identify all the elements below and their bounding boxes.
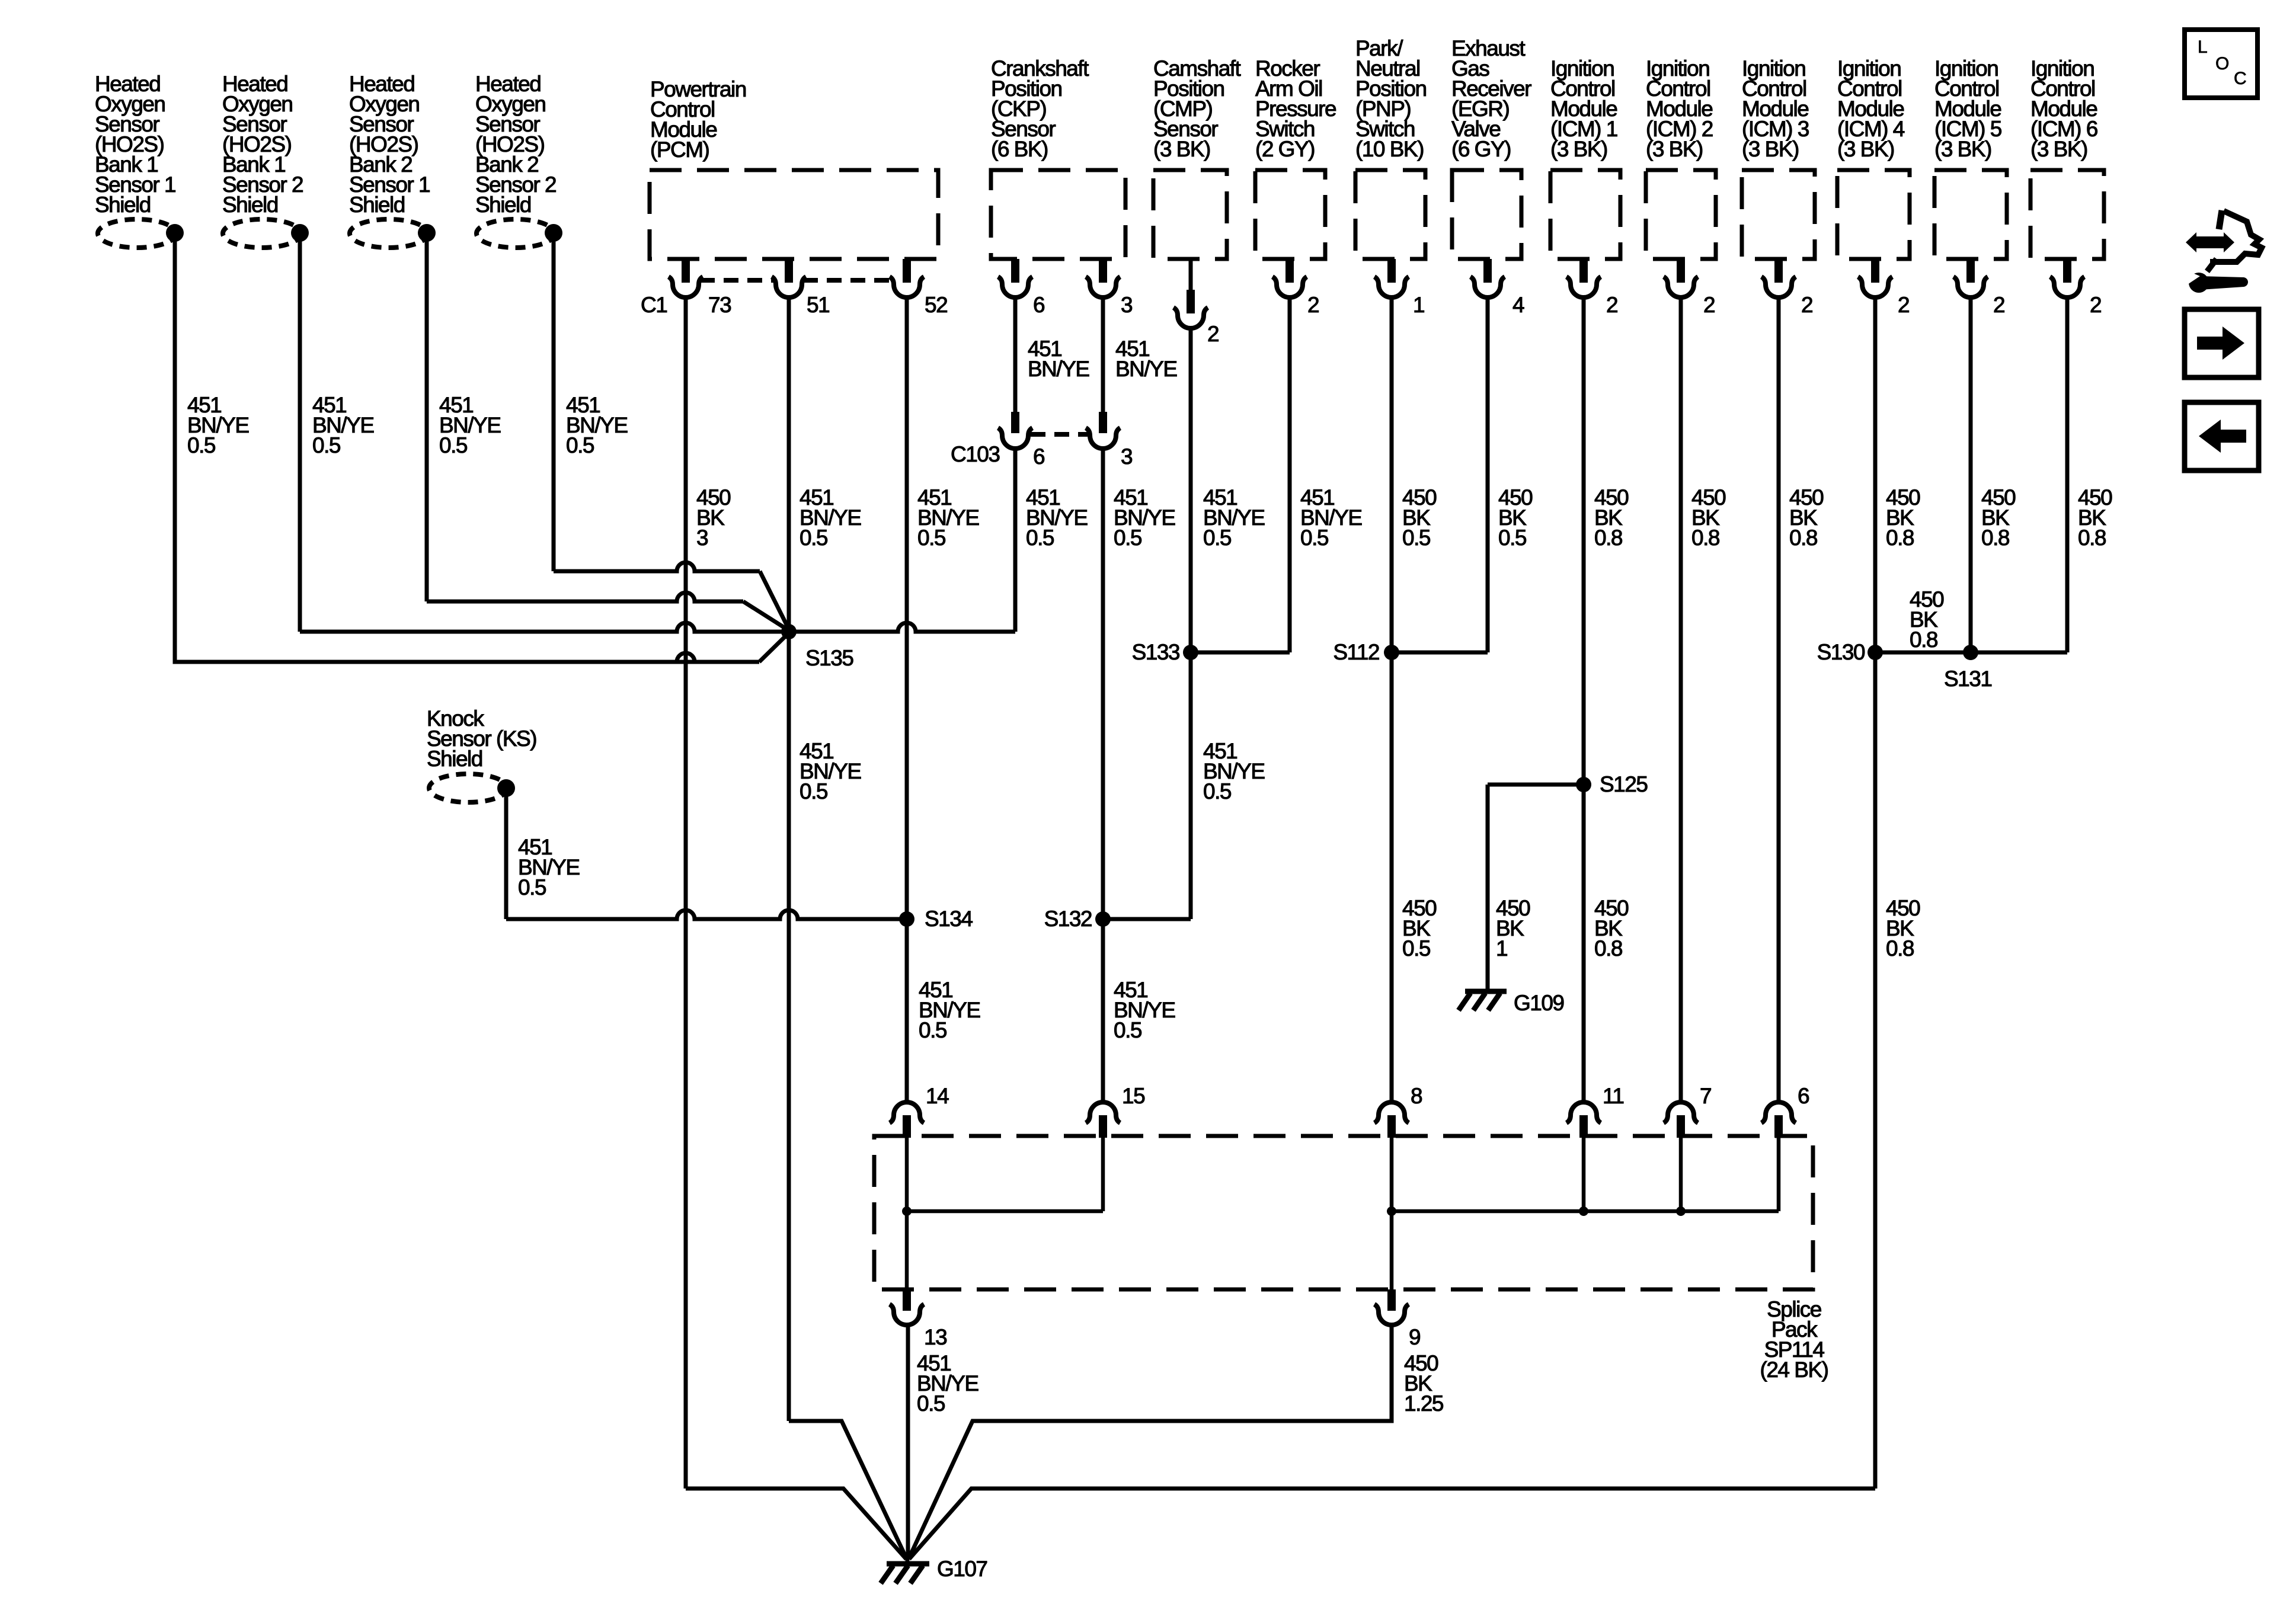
HO2S bank2 sensor2 shield symbol [477,219,555,248]
knock shield wire [504,792,509,919]
svg-text:S132: S132 [1044,907,1092,931]
CKP sensor dashed box [991,170,1125,259]
wire: S130 bottom run 450 BK to G107 [909,1489,1875,1559]
svg-text:15: 15 [1122,1084,1145,1108]
svg-text:0.8: 0.8 [1910,628,1937,652]
svg-text:(3 BK): (3 BK) [1550,137,1607,161]
svg-text:Shield: Shield [95,193,151,217]
ICM 1 pin 2 terminal [1579,259,1588,283]
EGR pin 4 terminal [1483,259,1492,283]
SP114 pin 14 terminal [890,1102,924,1123]
SP114 pin 8 terminal [1374,1102,1409,1123]
svg-text:11: 11 [1603,1084,1623,1108]
CKP pin 3 terminal [1099,259,1107,283]
wire: rocker switch pin 2 down, left to S133 [1288,297,1292,652]
PCM connector C1 pin 52 terminal [903,259,911,283]
svg-text:3: 3 [1121,444,1132,469]
svg-text:0.8: 0.8 [1789,526,1817,550]
svg-text:0.5: 0.5 [1203,526,1232,550]
svg-text:0.5: 0.5 [566,433,594,457]
svg-text:0.5: 0.5 [1026,526,1054,550]
svg-text:0.8: 0.8 [1594,526,1622,550]
svg-text:0.8: 0.8 [1981,526,2009,550]
svg-text:1: 1 [1496,936,1507,961]
SP114 bus junction at pin 11 [1579,1206,1588,1216]
svg-text:BN/YE: BN/YE [1028,357,1089,381]
svg-text:(3 BK): (3 BK) [1934,137,1991,161]
ICM 2 pin 2 terminal [1677,259,1685,283]
wire: EGR pin 4 450 BK down, left to S112 [1486,297,1490,652]
wire: SP114 pin 13 451 BN/YE to G107 [906,1325,910,1559]
svg-text:G107: G107 [937,1557,987,1581]
svg-text:2: 2 [2090,293,2101,317]
EGR valve dashed box [1452,170,1521,259]
svg-text:S112: S112 [1333,640,1379,664]
svg-text:(3 BK): (3 BK) [1837,137,1894,161]
wire: HO2S B1S2 shield 451 BN/YE to S135 [300,623,789,632]
svg-text:0.8: 0.8 [1886,526,1914,550]
ICM 1 dashed box [1550,170,1620,259]
wire: ICM1 pin 2 450 BK down through S125 to SP114 pin 11 [1582,297,1586,1102]
svg-text:0.5: 0.5 [917,526,946,550]
HO2S bank2 sensor1 shield symbol [350,219,428,248]
connector C1 dashed link [700,278,775,283]
svg-text:0.8: 0.8 [1886,936,1914,961]
wire: SP114 pin 9 450 BK to G107 [909,1325,1392,1559]
svg-text:BN/YE: BN/YE [1115,357,1177,381]
ground G107 [881,1557,929,1583]
svg-text:2: 2 [1801,293,1812,317]
PNP pin 1 terminal [1387,259,1396,283]
svg-text:1.25: 1.25 [1404,1391,1444,1416]
SP114 bus junction at pin 7 [1676,1206,1686,1216]
splice S133 [1183,645,1198,660]
svg-text:2: 2 [1898,293,1909,317]
wire: PCM pin 51 451 BN/YE through S135 down [787,297,791,1421]
wire: ICM4 pin 2 450 BK through S130 down to G107 [1873,297,1878,1489]
splice S131 [1963,645,1978,660]
hop HO2S1 over pin73 wire [175,653,759,662]
svg-text:S131: S131 [1944,667,1991,691]
wire: PNP pin 1 450 BK down through S112 to SP114 pin 8 [1390,297,1394,1102]
svg-text:S134: S134 [925,907,973,931]
svg-text:4: 4 [1512,293,1524,317]
svg-text:0.5: 0.5 [312,433,341,457]
svg-text:0.5: 0.5 [1402,936,1431,961]
CMP sensor dashed box [1153,170,1227,259]
SP114 pin 15 terminal [1086,1102,1120,1123]
splice S135 [781,624,797,639]
wire: HO2S B2S1 shield 451 BN/YE to S135 [425,237,429,601]
svg-text:0.5: 0.5 [1203,779,1232,804]
svg-text:(24 BK): (24 BK) [1760,1358,1828,1382]
wire: HO2S B1S1 shield 451 BN/YE to S135 [175,237,759,662]
wire: pin 51 bottom run to G107 [789,1421,907,1559]
connector C103 dashed link [1031,432,1088,437]
wire: PCM pin 73 450 BK down to G107 [684,297,688,1489]
svg-text:2: 2 [1703,293,1715,317]
svg-text:(3 BK): (3 BK) [1742,137,1799,161]
svg-text:Shield: Shield [427,747,482,771]
svg-text:Shield: Shield [222,193,278,217]
inline connector C103 pin 6 terminal [1011,412,1019,433]
ICM 4 dashed box [1837,170,1910,259]
svg-text:8: 8 [1411,1084,1422,1108]
svg-text:0.5: 0.5 [1114,526,1142,550]
svg-text:14: 14 [926,1084,949,1108]
wire: ICM2 pin 2 450 BK to SP114 pin 7 [1679,297,1683,1102]
back arrow box [2185,402,2259,470]
svg-text:(2 GY): (2 GY) [1255,137,1315,161]
svg-text:0.5: 0.5 [1300,526,1329,550]
knock sensor shield symbol (dashed ellipse + terminal dot) [429,774,507,802]
svg-text:3: 3 [696,526,708,550]
svg-text:51: 51 [807,293,829,317]
svg-text:L: L [2198,37,2208,57]
wire: HO2S B2S2 shield 451 BN/YE to S135 [552,237,556,571]
svg-text:0.5: 0.5 [800,526,828,550]
svg-text:73: 73 [708,293,731,317]
SP114 internal bus 14-15 [907,1209,1103,1214]
wire: C103 pin 6 down, left to S135 [1013,447,1018,632]
splice S130 [1868,645,1883,660]
splice pack SP114 dashed box [874,1136,1813,1289]
ICM 3 dashed box [1742,170,1815,259]
CMP pin 2 terminal [1189,259,1193,290]
svg-text:S135: S135 [805,646,853,670]
PNP switch dashed box [1355,170,1425,259]
svg-text:0.5: 0.5 [1402,526,1431,550]
svg-text:0.8: 0.8 [1691,526,1719,550]
svg-text:52: 52 [925,293,947,317]
svg-text:6: 6 [1033,293,1044,317]
rocker switch pin 2 terminal [1285,259,1294,283]
wire: pin 73 bottom run to G107 [686,1489,906,1559]
ICM 5 pin 2 terminal [1966,259,1975,283]
svg-text:0.8: 0.8 [1594,936,1622,961]
HO2S bank1 sensor1 shield symbol (dashed ellipse + terminal dot) [98,219,176,248]
ground G109 [1459,991,1507,1010]
splice S134 [899,911,914,927]
PCM connector C1 pin 73 terminal [682,259,690,283]
svg-text:0.5: 0.5 [518,875,546,900]
SP114 pin 6 terminal [1761,1102,1796,1123]
SP114 pin 13 terminal [905,1211,909,1289]
PCM connector C1 pin 51 terminal [785,259,793,283]
wire: CKP pin 3 to C103 pin 3 [1101,297,1105,413]
svg-text:(PCM): (PCM) [650,137,709,162]
inline connector C103 pin 3 terminal [1099,412,1107,433]
svg-text:9: 9 [1409,1325,1420,1349]
ICM 6 dashed box [2030,170,2104,259]
svg-text:0.5: 0.5 [187,433,216,457]
svg-text:C103: C103 [951,442,999,466]
adjust/check icon (double arrow, panel outline, wrench) [2185,210,2262,293]
CKP pin 6 terminal [1011,259,1019,283]
svg-text:0.5: 0.5 [439,433,468,457]
svg-text:2: 2 [1993,293,2004,317]
svg-text:0.5: 0.5 [1114,1018,1142,1042]
svg-text:Shield: Shield [475,193,531,217]
ICM 5 dashed box [1934,170,2007,259]
svg-text:7: 7 [1700,1084,1711,1108]
LOC legend box [2185,30,2257,98]
SP114 bus junction at pin 14 [902,1206,912,1216]
ICM 3 pin 2 terminal [1774,259,1783,283]
svg-text:S130: S130 [1817,640,1865,664]
svg-text:(6 BK): (6 BK) [991,137,1048,161]
svg-text:S133: S133 [1132,640,1179,664]
svg-text:O: O [2215,54,2229,73]
svg-text:(10 BK): (10 BK) [1355,137,1424,161]
svg-text:6: 6 [1033,444,1044,469]
svg-text:0.5: 0.5 [1498,526,1527,550]
svg-text:2: 2 [1207,322,1219,346]
SP114 bus junction at pin 8 [1387,1206,1396,1216]
forward arrow box [2185,309,2259,377]
svg-text:3: 3 [1121,293,1132,317]
wire: PCM pin 52 451 BN/YE through S134 to SP114 pin 14 [905,297,909,1102]
ICM 4 pin 2 terminal [1871,259,1879,283]
wire: S130 to S131 link [1875,651,1971,655]
svg-text:0.5: 0.5 [800,779,828,804]
wire: C103 pin 3 down through S132 to SP114 pin 15 [1101,447,1105,1102]
SP114 internal bus 8-11-7-6 [1392,1209,1779,1214]
svg-text:Shield: Shield [349,193,405,217]
svg-text:0.5: 0.5 [917,1391,945,1416]
svg-text:C: C [2234,69,2247,88]
svg-text:(6 GY): (6 GY) [1451,137,1511,161]
svg-text:C1: C1 [641,293,667,317]
svg-text:13: 13 [924,1325,946,1349]
splice S112 [1384,645,1399,660]
PCM U1 dashed box [650,170,938,259]
svg-text:6: 6 [1798,1084,1809,1108]
wire: CMP pin 2 down through S133, to S132 [1189,328,1193,919]
svg-text:2: 2 [1307,293,1319,317]
wire: ICM5 pin 2 450 BK down to S131 [1969,297,1973,652]
svg-text:(3 BK): (3 BK) [2030,137,2087,161]
svg-text:G109: G109 [1514,991,1564,1015]
svg-text:0.5: 0.5 [919,1018,947,1042]
svg-text:0.8: 0.8 [2078,526,2106,550]
SP114 pin 7 terminal [1664,1102,1698,1123]
rocker arm oil pressure switch dashed box [1255,170,1325,259]
svg-text:2: 2 [1606,293,1617,317]
svg-text:(3 BK): (3 BK) [1153,137,1210,161]
ICM 6 pin 2 terminal [2063,259,2071,283]
wire: ICM3 pin 2 450 BK to SP114 pin 6 [1777,297,1781,1102]
splice S125 [1576,777,1591,792]
HO2S bank1 sensor2 shield symbol [223,219,301,248]
splice S132 [1095,911,1111,927]
wire: CKP pin 6 to C103 pin 6 [1013,297,1018,413]
SP114 pin 9 terminal [1390,1211,1394,1289]
wire: ICM6 pin 2 450 BK down, left to S131 [2065,297,2070,652]
wire: S125 branch 450 BK to ground G109 [1488,783,1584,787]
svg-text:1: 1 [1413,293,1424,317]
ICM 2 dashed box [1646,170,1716,259]
SP114 pin 11 terminal [1566,1102,1601,1123]
svg-text:S125: S125 [1600,772,1648,796]
svg-text:(3 BK): (3 BK) [1646,137,1703,161]
